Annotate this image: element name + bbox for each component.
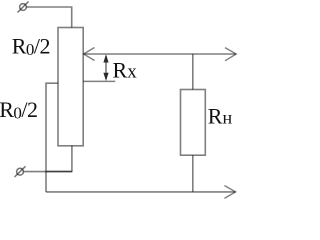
- wire from load resistor bottom to bottom bus: [192, 155, 194, 192]
- load resistor Rн (rectangle): [181, 90, 206, 156]
- svg-text:Rx: Rx: [113, 58, 138, 83]
- dimension arrow Rx (double-headed vertical): [103, 54, 108, 81]
- svg-text:R0/2: R0/2: [12, 33, 50, 59]
- wire from T2 to bottom of R0/2 lower: [23, 171, 72, 173]
- wire: wiper output line to the right: [84, 53, 236, 55]
- wiper arrowhead (open, pointing left at upper resistor): [84, 48, 95, 61]
- resistor R0/2 lower (rectangle, partly hidden behind upper): [46, 83, 72, 171]
- terminal T1 (top input, circle with slash): [18, 2, 29, 13]
- wire from R0/2 lower bottom-left corner down to bottom bus: [45, 172, 47, 192]
- wire: bottom bus: [46, 191, 235, 193]
- svg-text:Rн: Rн: [208, 104, 233, 129]
- output arrow (open, pointing right, bottom): [224, 186, 235, 199]
- resistor R0/2 upper (rectangle): [58, 28, 83, 146]
- terminal T2 (bottom input, circle with slash): [15, 166, 26, 177]
- dimension line: lower extension for Rx measurement: [83, 80, 115, 82]
- wire from T1 to top of R0/2 upper: [26, 7, 71, 28]
- svg-text:R0/2: R0/2: [0, 97, 38, 123]
- wire from wiper line down to load resistor: [192, 54, 194, 90]
- output arrow (open, pointing right, top): [225, 48, 236, 61]
